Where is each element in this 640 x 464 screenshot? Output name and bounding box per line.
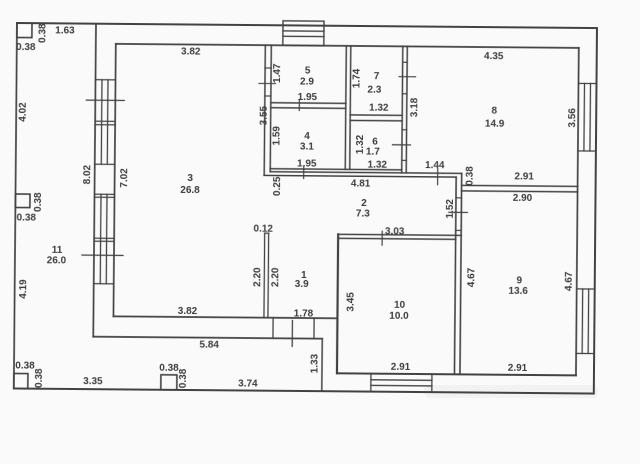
chimney block on top wall <box>283 21 324 46</box>
door from corridor to room 9 <box>449 198 468 231</box>
window W8r room 8 right wall <box>578 83 597 151</box>
svg-text:0.38: 0.38 <box>178 368 189 388</box>
svg-text:3.9: 3.9 <box>295 279 309 290</box>
wall room 10 left <box>337 234 338 373</box>
wire plot boundary right (house outer right wall) <box>594 28 597 393</box>
opening in wall 3-5 <box>259 68 276 96</box>
svg-text:7.02: 7.02 <box>119 168 130 188</box>
svg-text:1.95: 1.95 <box>298 92 318 103</box>
svg-text:0.12: 0.12 <box>253 224 273 235</box>
wall corridor to room 10 lower <box>339 238 455 239</box>
svg-text:2.91: 2.91 <box>514 171 534 182</box>
wall between corridor,room10 and room 9 <box>454 177 456 374</box>
wall between rooms 5 and 4 <box>271 102 346 105</box>
window W2 left wall <box>82 194 124 284</box>
wire plot boundary top <box>17 23 597 28</box>
wall corridor top lower line <box>264 175 456 177</box>
svg-text:2.20: 2.20 <box>270 267 281 287</box>
wire plot boundary left <box>14 23 17 388</box>
svg-text:3.35: 3.35 <box>83 376 103 387</box>
wall rooms 10 and 9 bottom inner <box>337 373 576 375</box>
wall house left inner <box>113 44 115 316</box>
svg-text:2.9: 2.9 <box>300 76 314 87</box>
window W9r room 9 right wall <box>576 289 595 354</box>
svg-text:4.67: 4.67 <box>466 267 477 287</box>
door tick room 6 to 8 <box>402 129 406 131</box>
svg-text:8: 8 <box>491 106 497 117</box>
svg-text:0.38: 0.38 <box>17 213 37 224</box>
svg-text:1.32: 1.32 <box>369 103 389 114</box>
wall between room 3 and rooms 5,4 <box>264 45 265 175</box>
faint scan watermark <box>424 385 598 398</box>
svg-text:0.38: 0.38 <box>16 42 36 53</box>
svg-text:8.02: 8.02 <box>82 164 93 184</box>
svg-text:4.02: 4.02 <box>18 102 29 122</box>
svg-text:2.3: 2.3 <box>367 85 381 96</box>
svg-text:7: 7 <box>374 71 380 82</box>
svg-text:1.47: 1.47 <box>272 63 283 83</box>
wall between rooms 7,6 and room 8 <box>402 46 403 172</box>
svg-text:4: 4 <box>304 131 310 142</box>
svg-text:3.82: 3.82 <box>181 46 201 57</box>
partition 0.12 between rooms 3 and 1 <box>264 233 269 318</box>
svg-text:0.38: 0.38 <box>33 192 44 212</box>
svg-text:1.78: 1.78 <box>294 308 314 319</box>
wall rooms 3 and 1 bottom inner <box>113 316 337 318</box>
svg-text:5: 5 <box>305 66 311 77</box>
wall between rooms 5,4 and 7,6 <box>345 46 346 169</box>
svg-text:1.32: 1.32 <box>367 160 387 171</box>
svg-text:3.74: 3.74 <box>238 378 258 389</box>
svg-text:4.67: 4.67 <box>564 271 575 291</box>
svg-text:2.91: 2.91 <box>508 363 528 374</box>
wall rooms 4,6 bottom <box>270 169 401 170</box>
tick dim 1.44 <box>437 169 439 185</box>
tick on wall 5-4 <box>298 99 300 110</box>
svg-text:1.59: 1.59 <box>271 126 282 146</box>
svg-text:2.90: 2.90 <box>513 193 533 204</box>
svg-text:4.35: 4.35 <box>484 51 504 62</box>
wall corridor to room 10 upper <box>338 234 461 235</box>
svg-text:0.25: 0.25 <box>272 176 283 196</box>
svg-text:26.8: 26.8 <box>180 185 200 196</box>
node dimension labels rotated <box>15 23 579 393</box>
svg-text:3: 3 <box>187 173 193 184</box>
svg-text:3.56: 3.56 <box>567 108 578 128</box>
svg-text:5.84: 5.84 <box>199 340 219 351</box>
svg-text:9: 9 <box>516 275 522 286</box>
window W1 left wall <box>86 80 125 165</box>
wall house bottom outer left part <box>93 337 322 339</box>
svg-text:3.82: 3.82 <box>178 306 198 317</box>
wall room 9 top <box>462 191 578 192</box>
svg-text:1.63: 1.63 <box>55 25 75 36</box>
wall room 8 bottom <box>462 185 578 186</box>
tick door to room 4 <box>303 167 305 179</box>
svg-text:1.33: 1.33 <box>309 353 320 373</box>
svg-text:3.45: 3.45 <box>345 292 356 312</box>
svg-text:26.0: 26.0 <box>47 255 67 266</box>
entrance door opening <box>273 318 314 347</box>
svg-text:0.38: 0.38 <box>465 166 476 186</box>
svg-text:14.9: 14.9 <box>485 119 505 130</box>
svg-text:1.44: 1.44 <box>425 160 445 171</box>
svg-text:2.91: 2.91 <box>391 362 411 373</box>
svg-text:0.38: 0.38 <box>15 360 35 371</box>
svg-text:1.74: 1.74 <box>351 68 362 88</box>
svg-text:0.38: 0.38 <box>37 23 48 43</box>
node dimension labels horizontal <box>13 25 536 392</box>
svg-text:10: 10 <box>394 300 406 311</box>
wall house right inner <box>576 48 579 375</box>
svg-text:3.18: 3.18 <box>409 97 420 117</box>
svg-text:1.7: 1.7 <box>366 147 380 158</box>
door tick room 7 to 8 <box>403 61 407 63</box>
svg-text:2.20: 2.20 <box>252 267 263 287</box>
wire plot boundary bottom <box>14 388 594 393</box>
wall house left outer <box>93 24 96 337</box>
svg-text:0.38: 0.38 <box>34 368 45 388</box>
svg-text:1.52: 1.52 <box>445 199 456 219</box>
pillar S4 bottom-mid 0.38x0.38 <box>161 375 177 390</box>
window W10b room 10 bottom wall <box>371 374 432 393</box>
wall house top inner <box>116 44 579 48</box>
svg-text:7.3: 7.3 <box>356 208 370 219</box>
svg-text:13.6: 13.6 <box>508 286 528 297</box>
wall porch edge 1.33 <box>321 339 323 391</box>
svg-text:1.32: 1.32 <box>355 134 366 154</box>
wall between rooms 7 and 6 <box>350 114 402 116</box>
svg-text:0.38: 0.38 <box>159 363 179 374</box>
svg-text:4.19: 4.19 <box>18 279 29 299</box>
pillar S3 bottom-left 0.38x0.38 <box>14 373 28 388</box>
tick dim 3.03 <box>381 231 383 245</box>
pillar S2 mid-left 0.38x0.38 <box>15 194 30 208</box>
svg-text:3.03: 3.03 <box>385 226 405 237</box>
svg-text:2: 2 <box>361 198 367 209</box>
svg-text:4.81: 4.81 <box>351 178 371 189</box>
svg-text:11: 11 <box>52 245 63 256</box>
pillar S1 top-left 0.38x0.38 <box>17 23 32 38</box>
svg-text:3.1: 3.1 <box>300 141 314 152</box>
svg-text:3.55: 3.55 <box>259 105 270 125</box>
svg-text:1.95: 1.95 <box>297 158 317 169</box>
wall corridor top upper line <box>270 172 461 174</box>
svg-text:10.0: 10.0 <box>389 311 409 322</box>
